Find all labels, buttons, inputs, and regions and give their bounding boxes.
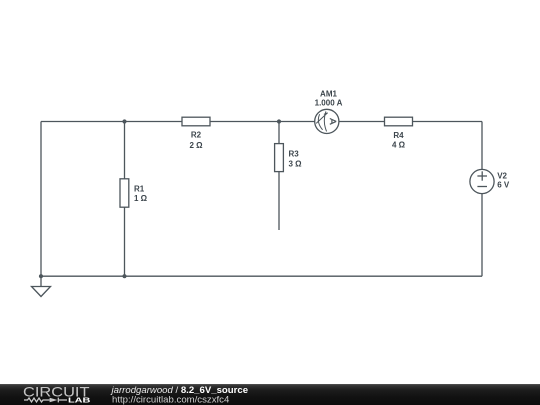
resistor R1: [120, 179, 129, 207]
svg-text:R1: R1: [134, 185, 145, 194]
resistor R3: [275, 144, 284, 172]
wire R3 branch: [278, 122, 280, 231]
wire bottom horizontal: [41, 275, 482, 277]
svg-text:LAB: LAB: [68, 396, 91, 405]
wire R1 branch: [124, 122, 126, 277]
wire right vertical: [481, 122, 483, 277]
svg-text:AM1: AM1: [320, 89, 337, 98]
labels: [134, 89, 510, 203]
svg-text:1.000 A: 1.000 A: [315, 99, 343, 108]
resistor R4: [385, 117, 413, 126]
svg-text:3 Ω: 3 Ω: [289, 160, 303, 169]
svg-text:4 Ω: 4 Ω: [392, 140, 406, 149]
wire left vertical: [40, 122, 42, 277]
logo waveform: [24, 398, 67, 403]
voltage source V2: [470, 169, 494, 193]
node dot top R1: [122, 119, 126, 123]
svg-text:6 V: 6 V: [497, 181, 510, 190]
node dot top R3: [277, 119, 281, 123]
wire top horizontal: [41, 121, 482, 123]
footer bar: [0, 384, 540, 405]
ground: [32, 276, 51, 296]
svg-text:R3: R3: [289, 150, 300, 159]
node dot bottom R1: [122, 274, 126, 278]
svg-text:2 Ω: 2 Ω: [189, 141, 203, 150]
svg-text:V2: V2: [497, 171, 507, 180]
ammeter AM1: [315, 109, 339, 133]
resistor R2: [182, 117, 210, 126]
svg-text:R2: R2: [191, 131, 202, 140]
svg-text:1 Ω: 1 Ω: [134, 194, 148, 203]
logo diode triangle: [50, 398, 58, 402]
svg-text:R4: R4: [393, 131, 404, 140]
node dot bottom ground: [39, 274, 43, 278]
svg-text:http://circuitlab.com/cszxfc4: http://circuitlab.com/cszxfc4: [112, 395, 230, 405]
